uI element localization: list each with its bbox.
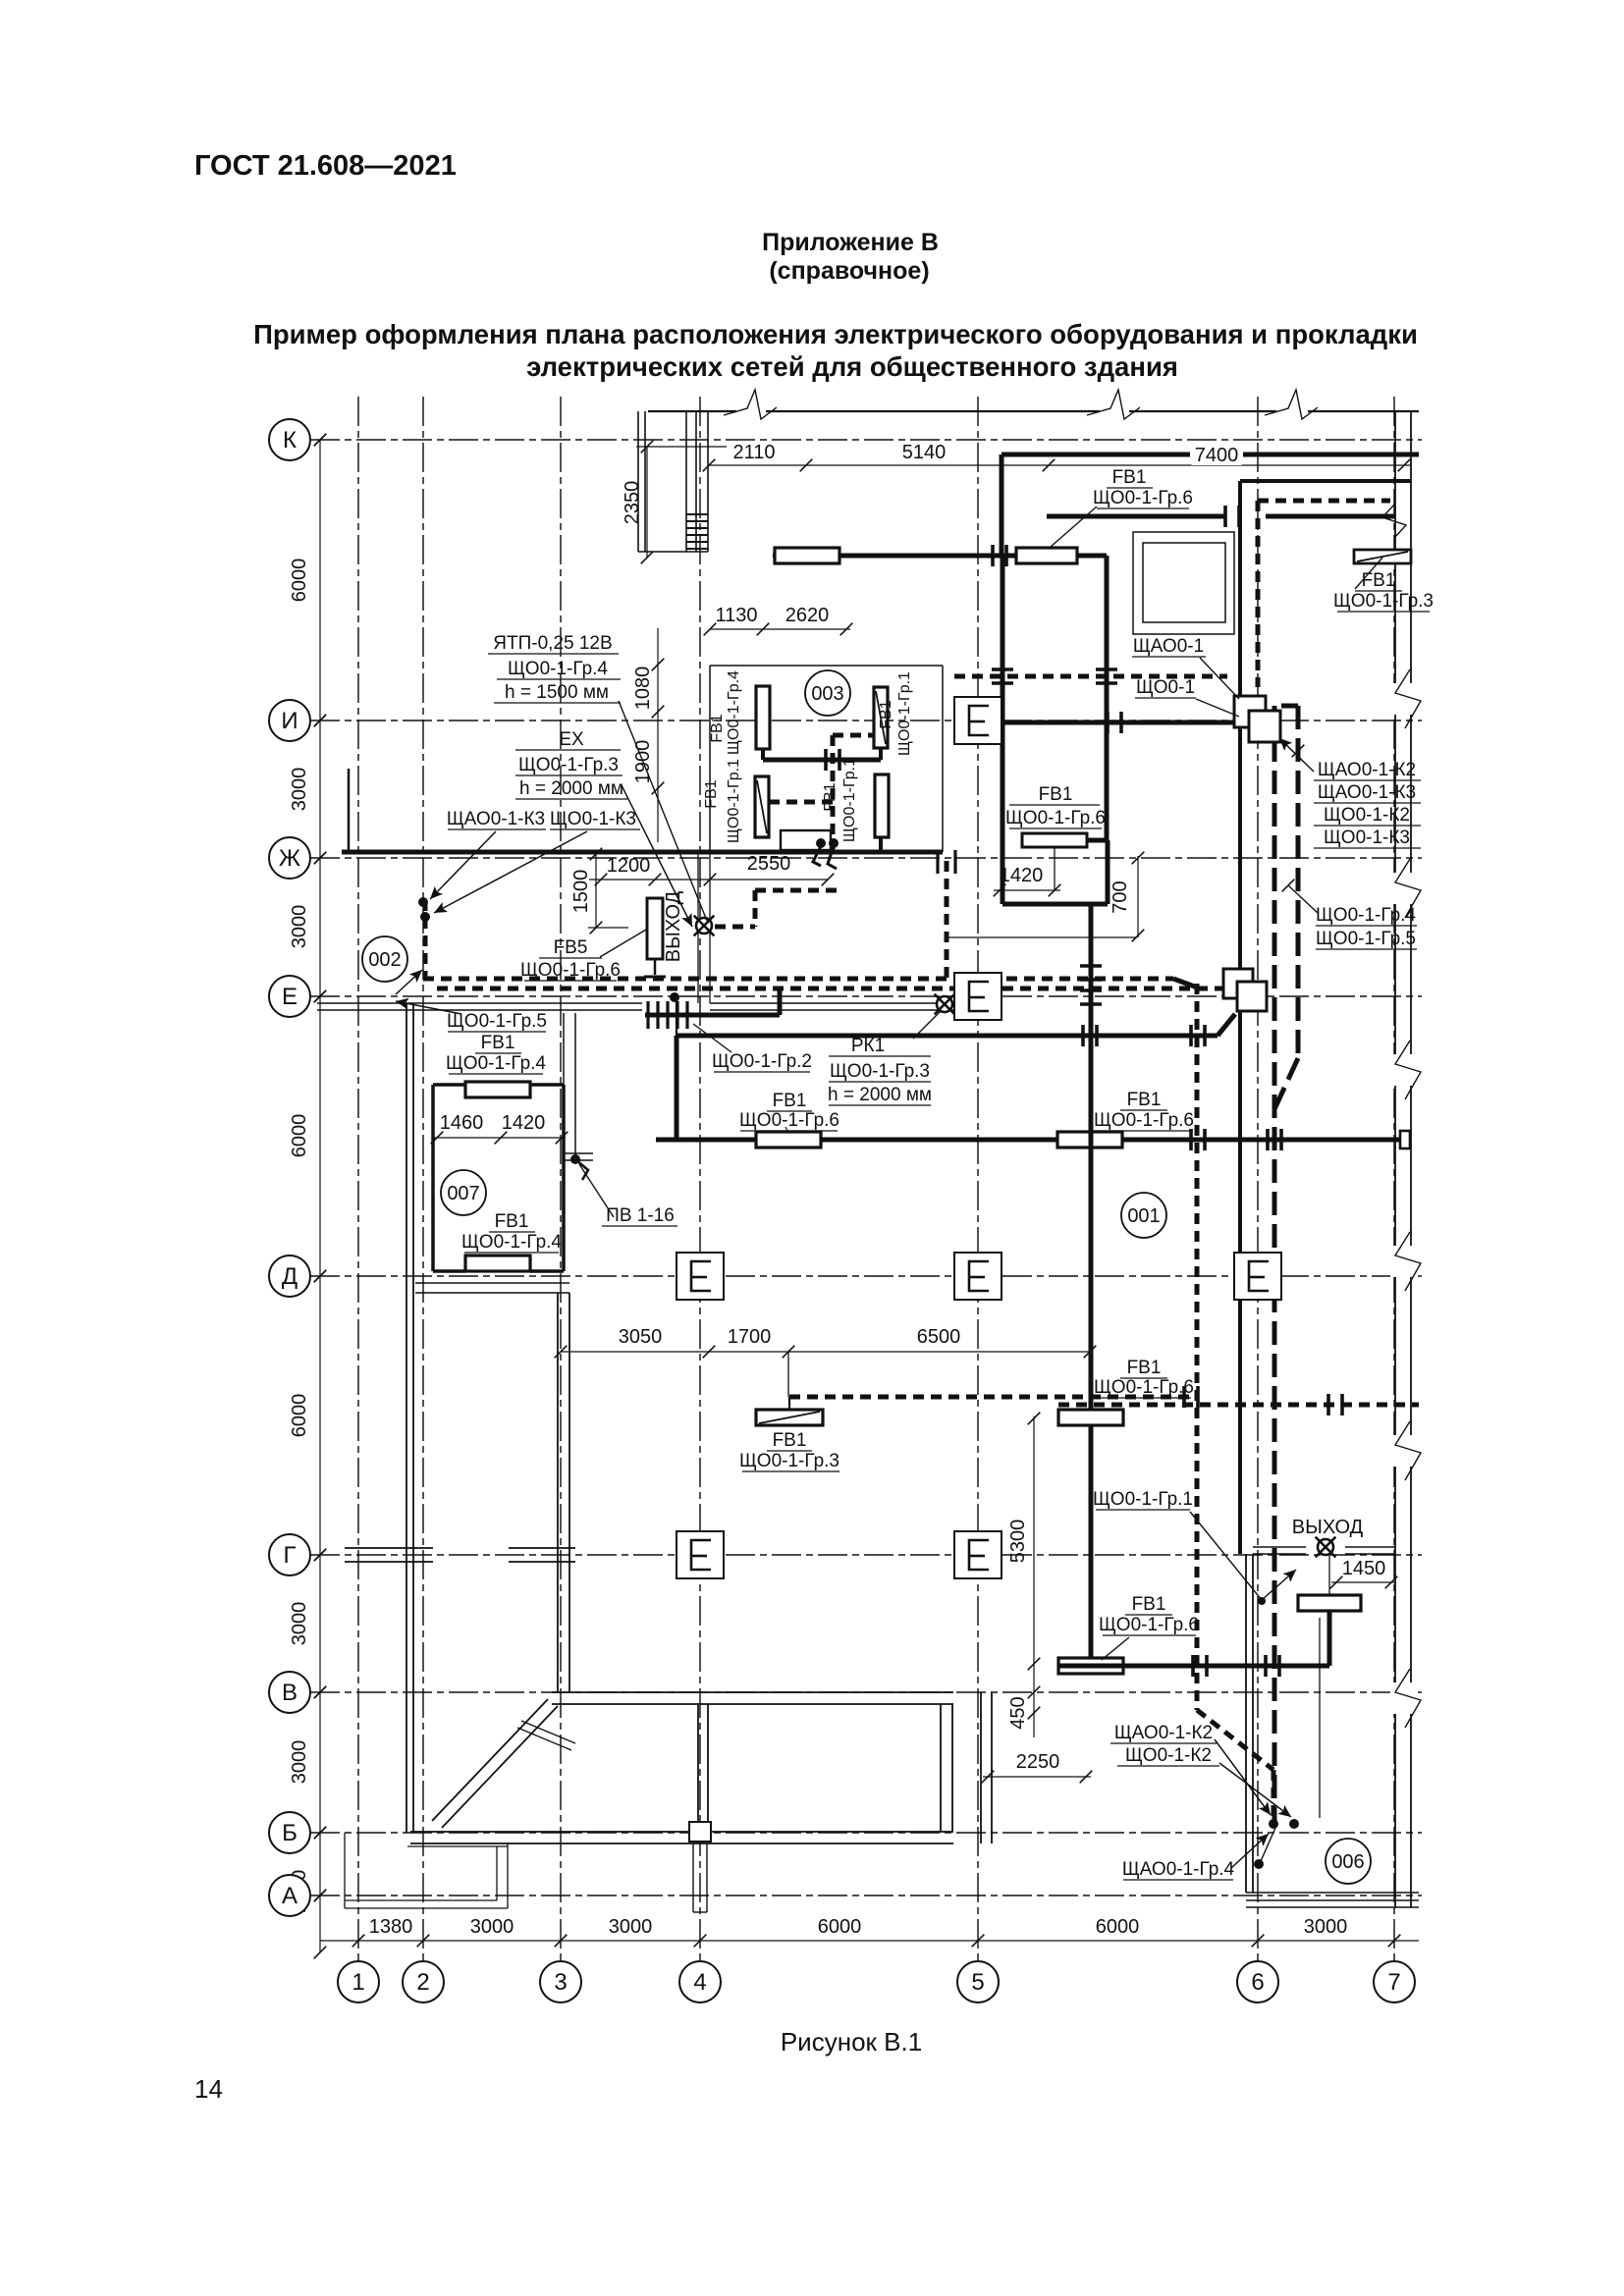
- svg-text:ЩАО0-1-К3: ЩАО0-1-К3: [447, 809, 545, 829]
- svg-text:FB1: FB1: [773, 1091, 807, 1111]
- svg-text:h = 2000 мм: h = 2000 мм: [828, 1085, 932, 1105]
- svg-text:1500: 1500: [570, 870, 592, 914]
- svg-text:1420: 1420: [1000, 865, 1044, 886]
- svg-text:Б: Б: [282, 1820, 298, 1846]
- svg-text:ЩАО0-1-Гр.4: ЩАО0-1-Гр.4: [1122, 1859, 1235, 1880]
- svg-text:FB1: FB1: [703, 779, 720, 808]
- svg-text:6000: 6000: [289, 1394, 310, 1438]
- svg-text:3: 3: [554, 1969, 567, 1996]
- svg-text:ЩО0-1-Гр.4: ЩО0-1-Гр.4: [508, 659, 608, 679]
- svg-text:РК1: РК1: [851, 1036, 885, 1056]
- svg-text:1450: 1450: [1342, 1558, 1386, 1579]
- svg-text:Приложение В: Приложение В: [762, 229, 939, 256]
- svg-text:h = 1500 мм: h = 1500 мм: [505, 682, 609, 703]
- svg-text:1700: 1700: [728, 1326, 772, 1348]
- svg-text:ЩО0-1-Гр.4: ЩО0-1-Гр.4: [726, 670, 742, 755]
- svg-text:ЩО0-1-Гр.6: ЩО0-1-Гр.6: [1005, 808, 1106, 828]
- svg-text:1460: 1460: [440, 1112, 484, 1134]
- svg-text:ЩО0-1-Гр.6: ЩО0-1-Гр.6: [1094, 1110, 1194, 1131]
- svg-text:Г: Г: [284, 1542, 297, 1569]
- svg-text:3000: 3000: [609, 1916, 653, 1938]
- svg-text:2: 2: [416, 1969, 429, 1996]
- svg-text:ЩО0-1-Гр.4: ЩО0-1-Гр.4: [446, 1053, 546, 1074]
- svg-text:3000: 3000: [289, 1602, 310, 1646]
- svg-text:1: 1: [352, 1969, 364, 1996]
- svg-text:ВЫХОД: ВЫХОД: [663, 890, 684, 962]
- svg-text:1080: 1080: [632, 667, 654, 711]
- svg-text:ЩО0-1-Гр.4: ЩО0-1-Гр.4: [1316, 905, 1416, 926]
- svg-text:ВЫХОД: ВЫХОД: [1292, 1517, 1364, 1538]
- svg-text:3000: 3000: [470, 1916, 514, 1938]
- svg-text:h = 2000 мм: h = 2000 мм: [519, 778, 623, 799]
- svg-text:ЩО0-1-Гр.5: ЩО0-1-Гр.5: [1316, 929, 1416, 949]
- svg-text:ЩО0-1-К2: ЩО0-1-К2: [1324, 805, 1410, 826]
- svg-text:ЩО0-1-Гр.6: ЩО0-1-Гр.6: [520, 960, 621, 981]
- svg-text:ЩО0-1-Гр.4: ЩО0-1-Гр.4: [461, 1232, 562, 1253]
- svg-text:ЩО0-1-Гр.1: ЩО0-1-Гр.1: [896, 671, 913, 756]
- svg-text:ЩАО0-1-К2: ЩАО0-1-К2: [1318, 760, 1416, 780]
- svg-text:2350: 2350: [622, 481, 643, 525]
- svg-text:ЩО0-1-К3: ЩО0-1-К3: [1324, 828, 1410, 848]
- svg-text:003: 003: [811, 683, 843, 705]
- svg-text:ПВ 1-16: ПВ 1-16: [606, 1205, 675, 1226]
- svg-text:1380: 1380: [369, 1916, 413, 1938]
- svg-text:ЩО0-1-Гр.3: ЩО0-1-Гр.3: [518, 755, 619, 775]
- svg-text:6500: 6500: [917, 1326, 961, 1348]
- svg-text:FB1: FB1: [878, 700, 894, 728]
- svg-text:ЩАО0-1-К2: ЩАО0-1-К2: [1114, 1723, 1213, 1743]
- svg-text:007: 007: [447, 1183, 479, 1204]
- svg-text:FB1: FB1: [709, 714, 726, 742]
- svg-text:FB1: FB1: [1112, 467, 1147, 488]
- svg-text:ЩО0-1-К2: ЩО0-1-К2: [1125, 1745, 1212, 1766]
- svg-text:FB1: FB1: [822, 782, 839, 811]
- svg-text:6: 6: [1251, 1969, 1264, 1996]
- svg-text:2620: 2620: [785, 605, 830, 626]
- svg-text:Е: Е: [282, 984, 298, 1010]
- svg-text:ЩО0-1-Гр.6: ЩО0-1-Гр.6: [1094, 1377, 1194, 1398]
- svg-text:2250: 2250: [1016, 1751, 1060, 1773]
- svg-text:2550: 2550: [747, 853, 791, 875]
- svg-text:Рисунок В.1: Рисунок В.1: [781, 2027, 922, 2056]
- svg-text:FB1: FB1: [1132, 1594, 1166, 1615]
- svg-text:6000: 6000: [289, 559, 310, 603]
- svg-text:FB1: FB1: [1362, 570, 1396, 591]
- svg-text:И: И: [281, 708, 298, 734]
- svg-text:ЩО0-1: ЩО0-1: [1136, 677, 1195, 698]
- svg-text:В: В: [282, 1680, 298, 1706]
- svg-text:ЩО0-1-Гр.3: ЩО0-1-Гр.3: [1333, 591, 1434, 612]
- svg-text:ЩО0-1-К3: ЩО0-1-К3: [550, 809, 636, 829]
- svg-text:1130: 1130: [715, 605, 757, 626]
- svg-text:ЩО0-1-Гр.1: ЩО0-1-Гр.1: [726, 759, 742, 843]
- svg-text:3000: 3000: [1304, 1916, 1348, 1938]
- svg-text:ЩАО0-1-К3: ЩАО0-1-К3: [1318, 782, 1416, 803]
- svg-text:1420: 1420: [502, 1112, 546, 1134]
- svg-text:14: 14: [194, 2074, 223, 2104]
- svg-text:2110: 2110: [732, 442, 775, 463]
- svg-text:6000: 6000: [818, 1916, 862, 1938]
- svg-text:EX: EX: [559, 729, 584, 750]
- svg-text:7: 7: [1387, 1969, 1400, 1996]
- svg-text:5: 5: [971, 1969, 984, 1996]
- svg-text:ЩО0-1-Гр.1: ЩО0-1-Гр.1: [841, 758, 858, 842]
- svg-text:FB5: FB5: [554, 937, 588, 958]
- svg-text:FB1: FB1: [481, 1033, 515, 1053]
- svg-text:ЩО0-1-Гр.5: ЩО0-1-Гр.5: [447, 1011, 547, 1032]
- svg-text:ЩО0-1-Гр.3: ЩО0-1-Гр.3: [739, 1451, 839, 1471]
- svg-text:3050: 3050: [619, 1326, 663, 1348]
- svg-text:ЩО0-1-Гр.6: ЩО0-1-Гр.6: [1093, 488, 1193, 508]
- svg-text:700: 700: [1110, 881, 1131, 913]
- svg-text:5300: 5300: [1007, 1520, 1029, 1564]
- svg-text:Ж: Ж: [279, 845, 300, 872]
- svg-text:006: 006: [1331, 1851, 1364, 1873]
- svg-text:6000: 6000: [1096, 1916, 1140, 1938]
- svg-text:7400: 7400: [1195, 445, 1239, 466]
- svg-text:FB1: FB1: [773, 1430, 807, 1451]
- svg-text:ЩО0-1-Гр.6: ЩО0-1-Гр.6: [1099, 1615, 1199, 1635]
- svg-text:ЩО0-1-Гр.6: ЩО0-1-Гр.6: [739, 1110, 839, 1131]
- svg-text:ЩО0-1-Гр.2: ЩО0-1-Гр.2: [712, 1051, 812, 1072]
- svg-text:3000: 3000: [289, 1740, 310, 1785]
- svg-text:ГОСТ 21.608—2021: ГОСТ 21.608—2021: [194, 150, 457, 182]
- svg-text:(справочное): (справочное): [769, 257, 929, 285]
- svg-text:Пример оформления плана распол: Пример оформления плана расположения эле…: [253, 319, 1418, 349]
- svg-text:450: 450: [1007, 1696, 1029, 1729]
- svg-text:3000: 3000: [289, 768, 310, 812]
- svg-text:3000: 3000: [289, 905, 310, 949]
- svg-text:ЯТП-0,25 12В: ЯТП-0,25 12В: [493, 633, 612, 654]
- svg-text:ЩАО0-1: ЩАО0-1: [1133, 636, 1204, 657]
- svg-text:4: 4: [693, 1969, 706, 1996]
- svg-text:FB1: FB1: [1127, 1090, 1162, 1110]
- svg-text:ЩО0-1-Гр.3: ЩО0-1-Гр.3: [830, 1061, 930, 1082]
- svg-text:FB1: FB1: [495, 1211, 529, 1232]
- svg-text:FB1: FB1: [1127, 1358, 1162, 1378]
- svg-text:ЩО0-1-Гр.1: ЩО0-1-Гр.1: [1093, 1489, 1193, 1510]
- svg-text:FB1: FB1: [1039, 784, 1073, 805]
- svg-text:002: 002: [368, 949, 401, 971]
- svg-text:К: К: [283, 427, 297, 454]
- svg-text:Д: Д: [282, 1263, 298, 1290]
- svg-text:А: А: [282, 1883, 298, 1909]
- svg-text:5140: 5140: [902, 442, 947, 463]
- svg-text:6000: 6000: [289, 1114, 310, 1158]
- svg-text:001: 001: [1127, 1205, 1160, 1227]
- svg-text:1200: 1200: [607, 855, 651, 877]
- svg-text:электрических сетей для общест: электрических сетей для общественного зд…: [526, 351, 1178, 382]
